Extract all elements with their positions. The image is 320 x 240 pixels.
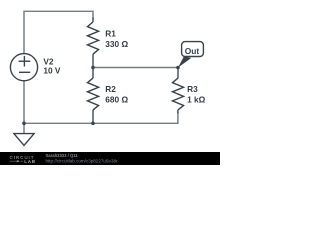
svg-text:680 Ω: 680 Ω bbox=[105, 95, 128, 105]
svg-text:330 Ω: 330 Ω bbox=[105, 39, 128, 49]
svg-text:LAB: LAB bbox=[24, 159, 36, 164]
svg-text:Out: Out bbox=[185, 46, 200, 56]
svg-text:10 V: 10 V bbox=[43, 66, 61, 76]
svg-text:R3: R3 bbox=[187, 84, 198, 94]
svg-text:1 kΩ: 1 kΩ bbox=[187, 95, 206, 105]
svg-text:http://circuitlab.com/c3p8227u: http://circuitlab.com/c3p8227u5e38r bbox=[46, 158, 119, 163]
svg-text:R2: R2 bbox=[105, 84, 116, 94]
svg-text:R1: R1 bbox=[105, 29, 116, 39]
